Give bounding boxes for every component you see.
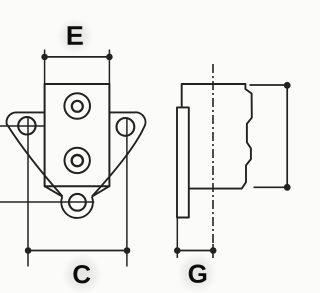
dimension line G bbox=[177, 250, 213, 252]
dimension G extension line left bbox=[176, 218, 178, 259]
bottom tab hole bbox=[69, 194, 86, 211]
dimension line C bbox=[28, 250, 127, 252]
halo behind label G bbox=[177, 253, 217, 293]
rubber block V taper right bbox=[92, 186, 110, 196]
side view body outline bbox=[182, 84, 252, 189]
centre line through bottom tab hole bbox=[0, 201, 94, 203]
height dimension line right bbox=[286, 85, 288, 187]
vertical centre line of side view bbox=[212, 64, 214, 244]
centre line through left flange hole bbox=[0, 125, 45, 127]
dimension E extension line right bbox=[108, 50, 110, 85]
dimension line E bbox=[45, 56, 110, 58]
flange base plate outline bbox=[7, 112, 63, 196]
dimension label C bbox=[73, 265, 90, 283]
rubber block V taper left bbox=[45, 186, 63, 196]
dimension G arrow dot right bbox=[210, 247, 217, 254]
upper stud hole bbox=[64, 93, 90, 119]
dimension E extension line left bbox=[44, 50, 46, 85]
height dimension arrow dot bottom bbox=[284, 184, 291, 191]
dimension C extension line left bbox=[27, 118, 29, 267]
dimension G arrow dot left bbox=[174, 247, 181, 254]
dimension E arrow dot right bbox=[106, 54, 113, 61]
height dimension extension line bottom bbox=[254, 186, 288, 188]
lower stud hole bbox=[65, 148, 90, 173]
right flange mounting hole bbox=[117, 118, 135, 136]
dimension C arrow dot left bbox=[25, 247, 32, 254]
dimension C extension line right bbox=[126, 119, 128, 267]
side view base plate bbox=[177, 107, 189, 217]
halo behind label E bbox=[57, 18, 93, 54]
main body rectangle bbox=[45, 84, 110, 186]
lower stud hole inner bbox=[72, 155, 83, 166]
dimension label E bbox=[68, 26, 83, 45]
dimension label G bbox=[189, 264, 207, 282]
height dimension arrow dot top bbox=[284, 82, 291, 89]
upper stud hole inner bbox=[72, 101, 83, 112]
height dimension extension line top bbox=[250, 84, 288, 86]
dimension E arrow dot left bbox=[41, 54, 48, 61]
left flange mounting hole bbox=[18, 117, 35, 134]
halo behind label C bbox=[62, 254, 102, 293]
dimension C arrow dot right bbox=[124, 247, 131, 254]
